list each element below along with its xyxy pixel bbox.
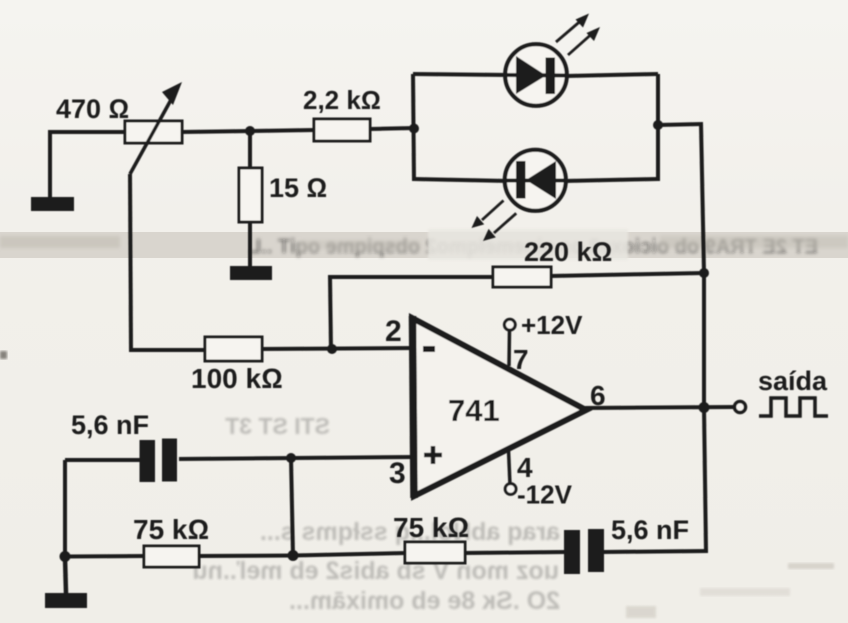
svg-text:3: 3 [389, 457, 406, 490]
node junction between 75k resistors [288, 550, 299, 561]
resistor 75 kohm (left) [144, 546, 199, 567]
svg-text:+12V: +12V [521, 310, 583, 340]
wire LED top branch right [566, 74, 658, 76]
resistor 15 ohm [239, 168, 262, 222]
resistor 2,2 kohm [314, 119, 370, 141]
svg-text:2,2 kΩ: 2,2 kΩ [303, 85, 381, 115]
wire ground node to 75k left [65, 554, 145, 559]
wire right bus vertical [701, 124, 706, 551]
wire vertical pin3 node to bottom node [291, 458, 293, 556]
wire pot to node A [182, 131, 252, 132]
node junction pin3 / cap / 75k [286, 453, 296, 463]
node junction pin2 / feedback [327, 344, 337, 354]
wire pot wiper down to 100k row [130, 174, 131, 352]
svg-text:220 kΩ: 220 kΩ [524, 237, 612, 267]
svg-text:5,6 nF: 5,6 nF [611, 515, 689, 545]
node junction LED right [653, 120, 663, 130]
wire output [584, 407, 734, 408]
wire bottom capacitor to bus corner [604, 551, 708, 552]
ground (left of 470 ohm pot) [31, 132, 74, 211]
wire feedback top right [551, 273, 704, 276]
node junction output / bus [699, 402, 710, 413]
LED D1 emitter (points right) [505, 44, 568, 106]
node junction LED left [409, 124, 419, 134]
LED D2 receiver (points left) [505, 150, 567, 211]
wire LED right to bus corner [658, 124, 703, 125]
non-inverting input plus sign [424, 446, 442, 464]
wire LED block right vertical [656, 74, 660, 181]
wire feedback top left [328, 275, 494, 279]
wire feedback left vertical [330, 277, 331, 351]
svg-text:470 Ω: 470 Ω [56, 94, 129, 124]
wire 75k to center node [199, 554, 294, 559]
wire node A to 2.2k [250, 130, 315, 131]
potentiometer 470 ohm body [125, 121, 182, 143]
capacitor 5,6 nF (top) [140, 439, 178, 483]
LED D1 emission arrows [556, 14, 600, 56]
svg-text:15 Ω: 15 Ω [269, 173, 327, 203]
power terminal -12V [505, 450, 516, 494]
svg-text:-12V: -12V [517, 480, 573, 510]
svg-text:STI ST 3T: STI ST 3T [225, 413, 330, 439]
wire LED top branch left [413, 74, 510, 75]
wire 100k to pin 2 [262, 348, 415, 349]
ground (bottom left) [45, 557, 87, 608]
wire 15 ohm top lead [248, 131, 252, 169]
svg-text:75 kΩ: 75 kΩ [133, 514, 209, 545]
svg-text:uoz mon V sb abis2 eb meľ..nu: uoz mon V sb abis2 eb meľ..nu [192, 557, 559, 585]
wire LED bottom branch left [413, 179, 510, 181]
svg-text:75 kΩ: 75 kΩ [393, 512, 469, 543]
svg-text:2: 2 [385, 315, 402, 348]
op-amp U1 741 triangle [412, 316, 586, 498]
svg-text:7: 7 [513, 344, 529, 375]
power terminal +12V [504, 319, 515, 366]
svg-text:5,6 nF: 5,6 nF [71, 410, 149, 440]
resistor 220 kohm [493, 267, 551, 287]
wire ground to potentiometer [48, 130, 126, 134]
wire left lead of top capacitor [65, 458, 140, 462]
wire left vertical cap to ground row [63, 460, 67, 557]
resistor 100 kohm [205, 337, 262, 361]
ground (below 15 ohm) [230, 266, 272, 280]
square wave symbol [759, 398, 828, 416]
potentiometer wiper arrow [130, 82, 182, 174]
svg-text:100 kΩ: 100 kΩ [191, 363, 283, 394]
svg-text:saída: saída [758, 366, 828, 396]
svg-text:2O .Sĸ 8e eb omixām...: 2O .Sĸ 8e eb omixām... [289, 587, 560, 615]
wire LED bottom branch right [564, 179, 658, 181]
wire LED block left vertical [413, 74, 414, 181]
node junction ground / 75k [60, 551, 71, 562]
wire cap to pin 3 [179, 457, 415, 459]
node A junction (pot / 2.2k / 15 ohm) [245, 126, 255, 136]
LED D2 arrows [472, 201, 517, 242]
svg-text:741: 741 [448, 393, 500, 428]
wire pot wiper to 100k [129, 348, 206, 352]
wire center node to 75k right [293, 553, 406, 556]
output terminal circle [735, 402, 746, 413]
wire 2.2k to LED block [370, 128, 415, 129]
inverting input minus sign [423, 346, 435, 352]
wire 15 ohm bottom lead [248, 222, 252, 268]
wire 75k to bottom capacitor [465, 552, 566, 553]
node junction 220k to bus [699, 268, 709, 278]
svg-text:4: 4 [517, 452, 533, 483]
capacitor 5,6 nF (bottom) [564, 529, 604, 574]
resistor 75 kohm (right) [405, 542, 465, 563]
